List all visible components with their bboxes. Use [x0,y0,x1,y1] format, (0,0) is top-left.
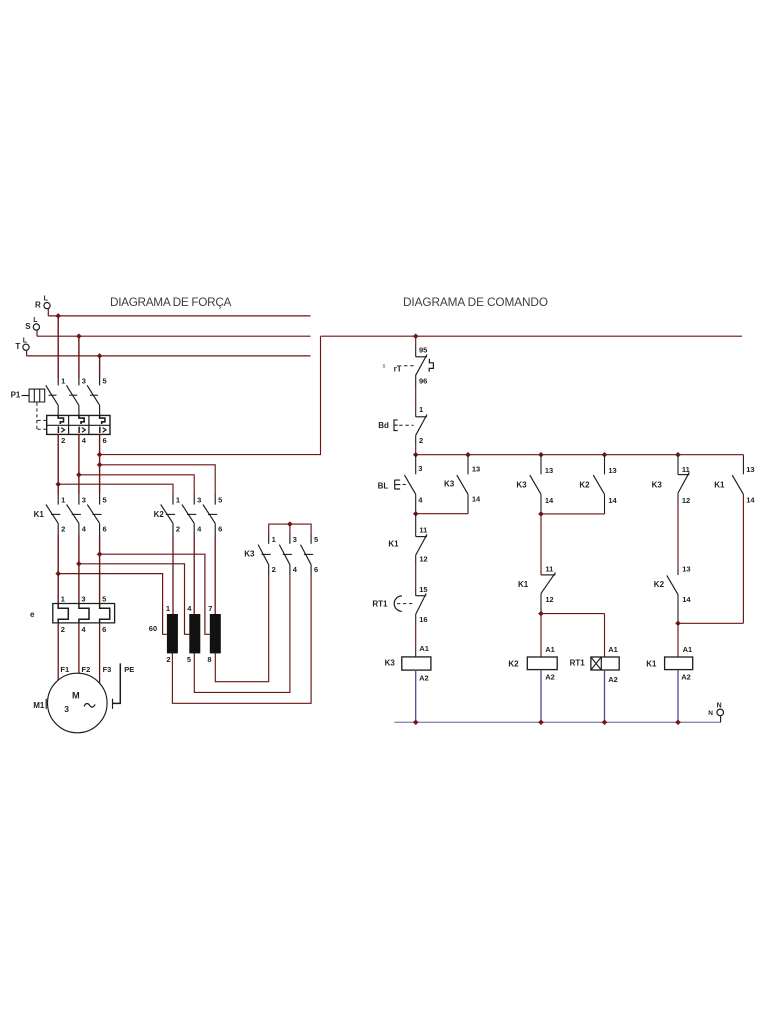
svg-text:Bd: Bd [378,421,389,430]
svg-text:F1: F1 [60,665,69,674]
wire winding 5 to K3-4 [194,574,290,692]
protective earth PE [113,663,135,709]
svg-text:95: 95 [419,346,427,355]
node branch3 K2-parallel [539,511,544,516]
wire phase S bus [37,335,311,337]
node command feed tap [97,452,102,457]
svg-text:K2: K2 [654,580,665,589]
wire junction to K1 [415,514,417,537]
contactor K3 label [244,549,255,558]
wire 96 to 1 [415,375,417,417]
svg-text:K2: K2 [508,659,519,668]
wire R drop to P1 [57,316,59,378]
node K2 feed tap T [97,462,102,467]
wire K3-12 to K2-13 [677,493,679,569]
svg-text:14: 14 [472,495,481,504]
svg-text:13: 13 [682,565,690,574]
svg-text:14: 14 [545,496,554,505]
svg-text:6: 6 [102,625,106,634]
wire K2 feed S [79,475,194,494]
contact K3 13-14 (seal-in) [444,455,481,504]
svg-text:2: 2 [61,436,65,445]
svg-text:5: 5 [102,595,106,604]
terminal N [708,702,723,722]
svg-text:F3: F3 [103,665,112,674]
svg-text:3: 3 [418,464,422,473]
breaker P1 terminal labels [61,436,107,445]
wire K2-4 to winding 4 [193,535,195,614]
svg-text:5: 5 [314,535,318,544]
svg-text:K3: K3 [244,549,255,558]
svg-text:2: 2 [272,565,276,574]
contact K2 13-14 (parallel) [579,455,617,505]
node K2 feed tap R [56,482,61,487]
svg-text:K3: K3 [385,658,396,667]
wire tap R to transformer [58,574,167,635]
contact K1 13-14 (seal-in) [714,465,755,505]
node neutral branch4 [676,720,681,725]
svg-text:rT: rT [394,364,402,373]
breaker P1 actuator [11,389,47,431]
svg-text:3: 3 [64,704,69,714]
svg-text:M1: M1 [33,701,45,710]
svg-text:96: 96 [419,376,427,385]
svg-text:DIAGRAMA DE COMANDO: DIAGRAMA DE COMANDO [403,295,548,309]
node rail branch4 [676,452,681,457]
svg-text:K2: K2 [154,510,165,519]
svg-text:6: 6 [218,525,222,534]
wire phase R bus [48,315,310,317]
overload relay e box [30,604,115,623]
contactor K3 pole 1-2 [258,533,276,574]
node rail branch2 [466,452,471,457]
contact K1 11-12 NC (branch1) [388,525,427,563]
wire K3 bus [269,524,311,533]
svg-text:P1: P1 [11,391,21,400]
contact K1 11-12 NC (branch3) [518,565,556,604]
wire command feed [100,336,321,454]
autotransformer label 60 [149,624,157,633]
wire coil K2 to neutral [540,670,542,723]
coil RT1 (timer) [570,645,620,684]
wire phase T bus [27,355,311,357]
contactor K3 pole 5-6 [301,533,319,574]
wire e-6 to motor [99,623,101,684]
svg-text:A2: A2 [608,675,618,684]
svg-text:5: 5 [187,655,191,664]
node branch1 seal-in [413,511,418,516]
breaker P1 contact pole 5 [87,377,107,416]
overload relay e heater 2 [79,604,89,623]
svg-text:N: N [717,702,722,709]
coil K1 [646,645,692,682]
svg-text:A1: A1 [419,644,429,653]
terminal R [35,296,50,316]
node K2 feed tap S [76,472,81,477]
wire K1 seal-in link [678,622,743,624]
node S tap [76,334,81,339]
svg-text:K1: K1 [388,539,399,548]
wire e-4 to motor [78,623,80,674]
contactor K2 pole 1-2 [161,494,180,535]
node tap S [76,561,81,566]
wire command top rail [321,335,743,337]
svg-text:M: M [72,690,80,700]
svg-text:L: L [44,296,49,303]
thermal contact rT 95-96 [383,346,434,386]
wire tap T to transformer [100,554,210,634]
motor M1 label [33,701,45,710]
wire T drop to P1 [99,356,101,378]
svg-text:3: 3 [82,495,86,504]
contactor K1 label [34,510,45,519]
wire node to coil K2 [540,614,542,657]
svg-text:1: 1 [61,377,65,386]
svg-text:13: 13 [746,465,754,474]
autotransformer winding terminals top [166,604,213,613]
svg-text:13: 13 [472,465,480,474]
pushbutton Bd 1-2 (stop) [378,405,427,445]
node rail branch3 [539,452,544,457]
contact K2 13-14 (branch4) [654,565,692,604]
svg-text:1: 1 [61,495,65,504]
svg-text:12: 12 [419,555,427,564]
wire winding 8 to K3-2 [215,574,268,682]
svg-text:12: 12 [682,496,690,505]
svg-text:5: 5 [218,495,222,504]
wire branch5 down [742,494,744,623]
svg-text:3: 3 [82,377,86,386]
svg-text:2: 2 [61,525,65,534]
overload relay e heater 3 [100,604,110,623]
svg-text:L: L [33,317,38,324]
svg-text:16: 16 [419,615,427,624]
svg-text:RT1: RT1 [570,659,586,668]
overload relay e terminals bottom [61,625,107,634]
breaker P1 contact pole 3 [66,377,86,416]
svg-text:K3: K3 [652,481,663,490]
svg-text:2: 2 [61,625,65,634]
svg-text:K3: K3 [444,480,455,489]
wire K2 feed T [100,465,216,494]
wire K2-2 to winding 1 [172,535,174,614]
wire K1-2 down [57,535,59,604]
svg-text:L: L [23,337,28,344]
svg-text:K1: K1 [646,659,657,668]
coil K2 [508,645,557,682]
node tap R [56,571,61,576]
svg-text:15: 15 [419,585,427,594]
wire node to K1 NC [540,514,542,575]
contactor K2 label [154,510,165,519]
svg-text:13: 13 [545,466,553,475]
svg-text:A2: A2 [681,673,691,682]
svg-text:2: 2 [166,655,170,664]
contactor K2 pole 5-6 [203,494,222,535]
svg-text:11: 11 [419,525,427,534]
svg-text:F2: F2 [82,665,91,674]
wire seal-in link [416,513,468,515]
node rail branch1 [413,452,418,457]
svg-text:1: 1 [272,535,276,544]
coil K3 [385,644,431,683]
svg-text:14: 14 [608,496,617,505]
wire P1-2 to K1-1 [57,434,59,494]
pushbutton BL 3-4 (start) [378,455,424,505]
svg-text:14: 14 [746,496,755,505]
svg-text:PE: PE [124,665,134,674]
svg-text:R: R [35,301,41,310]
svg-text:1: 1 [166,604,170,613]
contact K3 11-12 NC [652,455,691,505]
contact K3 13-14 (branch3) [516,455,554,505]
node K3 bus [287,522,292,527]
svg-text:13: 13 [608,466,616,475]
wire P1-4 to K1-3 [78,434,80,494]
wire 14 to coil node [677,595,679,624]
node R tap [56,313,61,318]
wire branch3b down [604,494,606,514]
autotransformer winding 1 [167,614,178,653]
breaker P1 contact pole 1 [46,377,66,416]
wire coil K3 to neutral [415,670,417,722]
motor lead labels [60,665,111,674]
svg-text:1: 1 [61,595,65,604]
wire RT1 coil feed [604,614,606,657]
terminal T [15,337,29,356]
wire branch5 from rail [742,455,744,475]
svg-text:K1: K1 [34,510,45,519]
svg-text:12: 12 [545,595,553,604]
svg-text:K3: K3 [516,481,527,490]
svg-text:A2: A2 [419,674,429,683]
title DIAGRAMA DE COMANDO [403,295,548,309]
wire K1-6 down [99,535,101,604]
svg-text:6: 6 [103,525,107,534]
wire branch2 to seal-in node [467,494,469,513]
node T tap [97,353,102,358]
svg-text:K1: K1 [714,481,725,490]
node neutral branch1 [413,720,418,725]
svg-text:N: N [708,710,713,717]
svg-text:14: 14 [682,595,691,604]
overload relay e terminals top [61,595,107,604]
breaker P1 trip unit [47,415,110,434]
wire e-2 to motor [57,623,59,681]
wire branch1 from rail [415,336,417,357]
svg-text:60: 60 [149,624,157,633]
wire tap S to transformer [79,564,189,635]
node rail branch3b [602,452,607,457]
motor M1 [46,673,107,733]
svg-text:2: 2 [419,436,423,445]
svg-text:5: 5 [103,495,107,504]
wire command node rail [416,454,744,456]
svg-text:3: 3 [197,495,201,504]
wire K2-6 to winding 7 [214,535,216,614]
svg-text:A1: A1 [683,645,693,654]
autotransformer winding 2 [189,614,200,653]
svg-text:7: 7 [208,604,212,613]
svg-text:1: 1 [176,495,180,504]
title DIAGRAMA DE FORCA [110,295,232,309]
wire P1-6 to K1-5 [99,434,101,494]
contactor K1 pole 5-6 [87,494,106,535]
contactor K1 pole 1-2 [46,494,65,535]
node neutral branch3c [602,720,607,725]
wire 2 to node rail [415,435,417,454]
node branch4 seal-in [676,621,681,626]
timed contact RT1 15-16 [372,585,427,624]
wire K2 feed R [58,484,173,494]
node top rail branch 1 [413,334,418,339]
svg-text:BL: BL [378,481,389,490]
svg-text:2: 2 [176,525,180,534]
wire neutral rail [394,721,720,723]
svg-text:3: 3 [293,535,297,544]
wire winding 2 to K3-6 [172,574,311,703]
wire 14 to node [540,494,542,514]
svg-text:A1: A1 [545,645,555,654]
svg-text:6: 6 [314,565,318,574]
wire node to coil K1 [677,623,679,657]
contactor K1 pole 3-4 [67,494,87,535]
node branch3 RT1-parallel [539,611,544,616]
wire 12 to 15 [415,555,417,596]
wire RT1 parallel link [541,613,605,615]
wire S drop to P1 [78,336,80,377]
svg-text:A2: A2 [545,673,555,682]
svg-text:3: 3 [81,595,85,604]
svg-text:6: 6 [103,436,107,445]
svg-text:S: S [25,322,31,331]
wire coil RT1 to neutral [604,670,606,722]
svg-text:e: e [30,610,35,619]
node neutral branch3 [539,720,544,725]
terminal S [25,317,39,336]
svg-text:K1: K1 [518,580,529,589]
autotransformer winding 3 [210,614,221,653]
svg-text:1: 1 [419,405,423,414]
contactor K2 pole 3-4 [182,494,202,535]
svg-text:DIAGRAMA DE FORÇA: DIAGRAMA DE FORÇA [110,295,232,309]
svg-text:A1: A1 [608,645,618,654]
wire 4 to junction [415,494,417,513]
svg-text:11: 11 [545,565,553,574]
svg-text:K2: K2 [579,481,590,490]
overload relay e heater 1 [58,604,68,623]
svg-text:s: s [383,363,386,369]
svg-text:T: T [15,342,20,351]
svg-text:8: 8 [207,655,211,664]
wire K2 parallel link [541,513,605,515]
wire 16 to coil K3 [415,614,417,657]
wire K1-4 down [78,535,80,604]
contactor K3 pole 3-4 [279,533,298,574]
wire coil K1 to neutral [677,670,679,723]
svg-text:RT1: RT1 [372,599,388,608]
autotransformer winding terminals bottom [166,655,211,664]
node tap T [97,552,102,557]
svg-text:5: 5 [103,377,107,386]
wire 12 to node RT1 [540,593,542,613]
